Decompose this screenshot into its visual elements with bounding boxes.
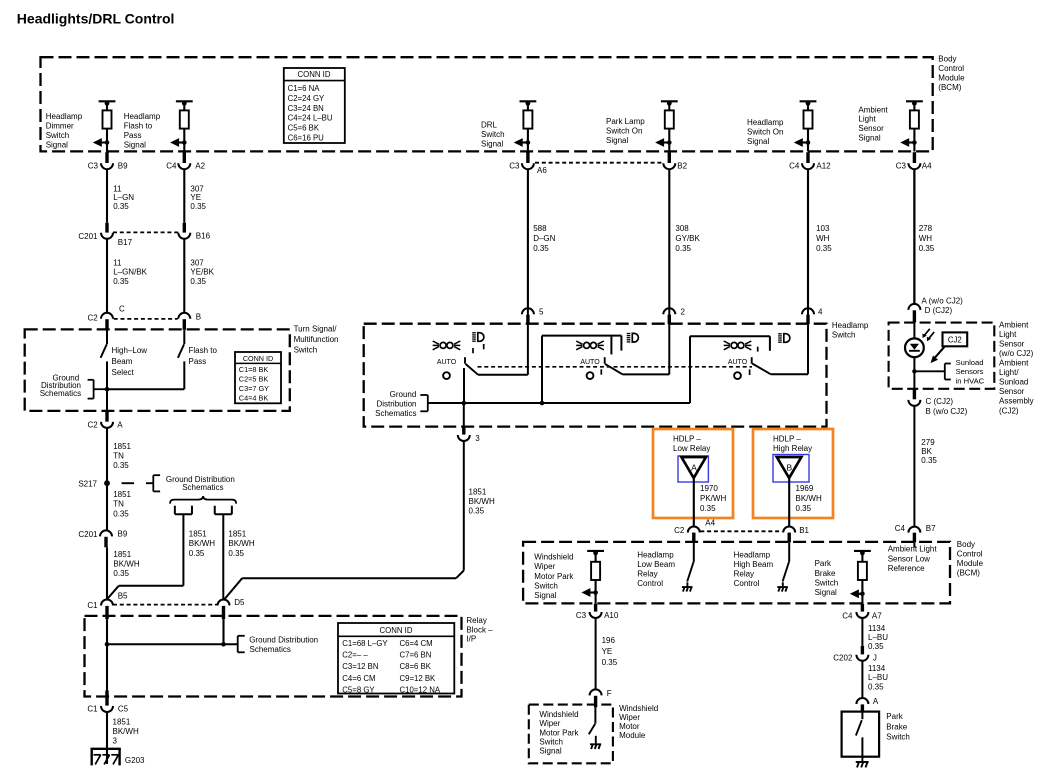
svg-text:3: 3 — [113, 736, 118, 745]
svg-text:Assembly: Assembly — [999, 397, 1034, 406]
svg-text:5: 5 — [539, 307, 544, 316]
svg-text:1970: 1970 — [700, 484, 718, 493]
svg-text:1851: 1851 — [189, 530, 207, 539]
svg-text:Wiper: Wiper — [619, 713, 640, 722]
svg-text:Sunload: Sunload — [999, 378, 1028, 387]
svg-text:Light: Light — [858, 115, 876, 124]
svg-text:C2=24 GY: C2=24 GY — [288, 94, 325, 103]
svg-text:AUTO: AUTO — [437, 359, 457, 366]
svg-text:C3: C3 — [576, 611, 587, 620]
svg-text:BK/WH: BK/WH — [469, 497, 495, 506]
svg-text:Module: Module — [619, 731, 646, 740]
svg-text:Headlamp: Headlamp — [124, 112, 161, 121]
svg-text:HDLP –: HDLP – — [673, 434, 701, 443]
svg-text:C4: C4 — [166, 161, 177, 170]
svg-text:Switch On: Switch On — [606, 127, 642, 136]
svg-text:L–GN: L–GN — [113, 193, 134, 202]
svg-text:Headlights/DRL Control: Headlights/DRL Control — [17, 10, 175, 26]
svg-text:Switch: Switch — [294, 346, 318, 355]
svg-text:C7=6 BN: C7=6 BN — [400, 651, 432, 660]
svg-text:C2=– –: C2=– – — [342, 651, 368, 660]
svg-text:S217: S217 — [78, 479, 97, 488]
svg-text:Switch: Switch — [46, 131, 70, 140]
svg-text:C202: C202 — [833, 654, 853, 663]
svg-text:Block –: Block – — [466, 625, 493, 634]
svg-text:Park Lamp: Park Lamp — [606, 117, 645, 126]
svg-text:AUTO: AUTO — [728, 359, 748, 366]
svg-text:0.35: 0.35 — [469, 507, 485, 516]
svg-text:0.35: 0.35 — [796, 504, 812, 513]
svg-text:0.35: 0.35 — [190, 277, 206, 286]
svg-text:AUTO: AUTO — [580, 359, 600, 366]
svg-text:0.35: 0.35 — [113, 569, 129, 578]
svg-text:C2=5 BK: C2=5 BK — [239, 374, 269, 383]
svg-text:(BCM): (BCM) — [938, 83, 961, 92]
svg-text:C2: C2 — [674, 526, 685, 535]
svg-text:Pass: Pass — [124, 131, 142, 140]
svg-text:C9=12 BK: C9=12 BK — [400, 674, 437, 683]
svg-text:A (w/o CJ2): A (w/o CJ2) — [922, 296, 964, 305]
svg-text:Park: Park — [886, 712, 903, 721]
svg-text:C4=4 BK: C4=4 BK — [239, 393, 269, 402]
svg-text:0.35: 0.35 — [602, 658, 618, 667]
svg-text:CONN ID: CONN ID — [380, 626, 413, 635]
svg-text:C10=12 NA: C10=12 NA — [400, 686, 441, 695]
svg-text:Headlamp: Headlamp — [832, 321, 869, 330]
svg-text:Relay: Relay — [466, 616, 486, 625]
svg-text:B5: B5 — [118, 592, 128, 601]
svg-text:High Relay: High Relay — [773, 444, 812, 453]
svg-text:Control: Control — [637, 579, 663, 588]
svg-text:Schematics: Schematics — [250, 645, 291, 654]
svg-text:Switch: Switch — [815, 578, 839, 587]
svg-text:J: J — [873, 654, 877, 663]
svg-text:Motor: Motor — [619, 722, 640, 731]
svg-text:Signal: Signal — [858, 134, 880, 143]
svg-text:Sunload: Sunload — [956, 358, 984, 367]
svg-text:Signal: Signal — [815, 588, 837, 597]
svg-text:BK: BK — [921, 447, 932, 456]
svg-text:Switch: Switch — [534, 581, 558, 590]
svg-text:in HVAC: in HVAC — [956, 376, 985, 385]
svg-text:Schematics: Schematics — [40, 389, 81, 398]
svg-text:4: 4 — [818, 307, 823, 316]
svg-text:C4=6 CM: C4=6 CM — [342, 674, 375, 683]
svg-text:PK/WH: PK/WH — [700, 494, 726, 503]
svg-text:307: 307 — [190, 185, 204, 194]
svg-text:GY/BK: GY/BK — [675, 234, 700, 243]
svg-text:I/P: I/P — [466, 635, 476, 644]
svg-text:Ambient: Ambient — [999, 359, 1029, 368]
svg-text:Park: Park — [815, 559, 832, 568]
svg-text:Brake: Brake — [886, 722, 907, 731]
svg-text:C5=8 GY: C5=8 GY — [342, 686, 375, 695]
svg-text:278: 278 — [919, 224, 933, 233]
svg-text:C3=12 BN: C3=12 BN — [342, 662, 378, 671]
svg-text:3: 3 — [475, 434, 480, 443]
svg-text:(BCM): (BCM) — [957, 569, 980, 578]
svg-text:Control: Control — [957, 549, 983, 558]
svg-text:Body: Body — [957, 540, 975, 549]
svg-text:B17: B17 — [118, 238, 133, 247]
svg-text:BK/WH: BK/WH — [228, 539, 254, 548]
svg-text:Headlamp: Headlamp — [46, 112, 83, 121]
svg-text:Relay: Relay — [637, 570, 657, 579]
svg-text:(CJ2): (CJ2) — [999, 406, 1019, 415]
svg-text:WH: WH — [816, 234, 830, 243]
svg-text:Flash to: Flash to — [124, 122, 153, 131]
svg-text:Ground: Ground — [390, 390, 417, 399]
svg-text:Wiper: Wiper — [534, 562, 555, 571]
svg-text:C2: C2 — [87, 313, 98, 322]
svg-text:L–GN/BK: L–GN/BK — [113, 268, 147, 277]
svg-text:0.35: 0.35 — [675, 244, 691, 253]
svg-text:Signal: Signal — [747, 137, 769, 146]
svg-text:BK/WH: BK/WH — [113, 560, 139, 569]
svg-text:D5: D5 — [234, 598, 245, 607]
svg-text:L–BU: L–BU — [868, 673, 888, 682]
svg-text:C: C — [119, 305, 125, 314]
svg-text:C201: C201 — [78, 232, 98, 241]
svg-text:Signal: Signal — [606, 136, 628, 145]
svg-text:Signal: Signal — [124, 141, 146, 150]
svg-text:588: 588 — [533, 224, 547, 233]
svg-text:A: A — [117, 420, 123, 429]
svg-text:2: 2 — [681, 307, 686, 316]
svg-text:A4: A4 — [705, 518, 715, 527]
svg-text:A: A — [873, 697, 879, 706]
svg-text:Windshield: Windshield — [619, 704, 658, 713]
svg-text:0.35: 0.35 — [921, 456, 937, 465]
svg-text:Low Relay: Low Relay — [673, 444, 710, 453]
svg-text:Multifunction: Multifunction — [294, 335, 339, 344]
svg-text:1134: 1134 — [868, 664, 886, 673]
svg-text:Switch: Switch — [832, 331, 856, 340]
svg-text:Module: Module — [938, 73, 965, 82]
svg-text:TN: TN — [113, 500, 124, 509]
svg-text:Switch: Switch — [481, 130, 505, 139]
svg-text:Schematics: Schematics — [375, 409, 416, 418]
svg-text:0.35: 0.35 — [533, 244, 549, 253]
svg-text:C6=4 CM: C6=4 CM — [400, 639, 433, 648]
svg-text:Relay: Relay — [734, 570, 754, 579]
svg-text:Sensor Low: Sensor Low — [888, 554, 930, 563]
svg-text:HDLP –: HDLP – — [773, 434, 801, 443]
svg-text:0.35: 0.35 — [113, 202, 129, 211]
svg-text:11: 11 — [113, 258, 122, 267]
svg-text:0.35: 0.35 — [868, 682, 884, 691]
svg-text:Signal: Signal — [481, 140, 503, 149]
svg-text:Motor Park: Motor Park — [534, 572, 574, 581]
svg-text:Reference: Reference — [888, 564, 925, 573]
svg-text:WH: WH — [919, 234, 933, 243]
svg-text:0.35: 0.35 — [228, 549, 244, 558]
svg-text:0.35: 0.35 — [113, 509, 129, 518]
svg-text:A: A — [691, 462, 697, 472]
svg-text:B16: B16 — [196, 231, 211, 240]
svg-text:C3: C3 — [88, 161, 99, 170]
svg-text:C3=24 BN: C3=24 BN — [288, 104, 324, 113]
svg-text:BK/WH: BK/WH — [113, 727, 139, 736]
svg-text:Select: Select — [112, 368, 135, 377]
svg-text:C1=8 BK: C1=8 BK — [239, 365, 269, 374]
svg-text:0.35: 0.35 — [816, 244, 832, 253]
svg-text:C5=6 BK: C5=6 BK — [288, 124, 320, 133]
svg-text:C8=6 BK: C8=6 BK — [400, 662, 432, 671]
svg-text:1851: 1851 — [113, 490, 131, 499]
svg-text:0.35: 0.35 — [189, 549, 205, 558]
svg-text:BK/WH: BK/WH — [189, 539, 215, 548]
svg-text:L–BU: L–BU — [868, 633, 888, 642]
svg-text:B (w/o CJ2): B (w/o CJ2) — [926, 407, 968, 416]
svg-text:Switch On: Switch On — [747, 128, 783, 137]
svg-text:279: 279 — [921, 438, 935, 447]
svg-text:Beam: Beam — [112, 357, 133, 366]
svg-text:A4: A4 — [922, 161, 932, 170]
svg-text:A12: A12 — [816, 161, 831, 170]
svg-text:Distribution: Distribution — [376, 400, 416, 409]
svg-text:Switch: Switch — [539, 737, 563, 746]
svg-text:B7: B7 — [926, 524, 936, 533]
svg-text:TN: TN — [113, 452, 124, 461]
svg-text:C3=7 GY: C3=7 GY — [239, 384, 269, 393]
svg-text:Flash to: Flash to — [189, 346, 218, 355]
svg-text:1851: 1851 — [113, 442, 131, 451]
svg-text:Sensor: Sensor — [999, 339, 1025, 348]
svg-text:Control: Control — [938, 64, 964, 73]
svg-text:YE: YE — [190, 193, 201, 202]
svg-text:C1=6 NA: C1=6 NA — [288, 84, 321, 93]
svg-text:A6: A6 — [537, 166, 547, 175]
svg-text:DRL: DRL — [481, 121, 498, 130]
svg-text:C1: C1 — [87, 704, 98, 713]
svg-text:C3: C3 — [896, 161, 907, 170]
svg-text:C4: C4 — [842, 612, 853, 621]
svg-text:Pass: Pass — [189, 357, 207, 366]
svg-text:B: B — [196, 313, 201, 322]
svg-text:Motor Park: Motor Park — [539, 728, 579, 737]
svg-text:Ambient Light: Ambient Light — [888, 545, 938, 554]
svg-text:Headlamp: Headlamp — [747, 118, 784, 127]
svg-text:Headlamp: Headlamp — [734, 550, 771, 559]
svg-text:Control: Control — [734, 579, 760, 588]
svg-text:High Beam: High Beam — [734, 560, 774, 569]
svg-text:Body: Body — [938, 54, 956, 63]
svg-text:1969: 1969 — [796, 484, 814, 493]
svg-text:1851: 1851 — [113, 718, 131, 727]
svg-text:11: 11 — [113, 185, 122, 194]
svg-text:A10: A10 — [604, 611, 619, 620]
svg-text:C1: C1 — [87, 601, 98, 610]
svg-text:C3: C3 — [509, 161, 520, 170]
svg-text:Windshield: Windshield — [539, 710, 578, 719]
svg-text:YE: YE — [602, 647, 613, 656]
svg-text:Signal: Signal — [534, 591, 556, 600]
svg-text:C5: C5 — [118, 704, 129, 713]
svg-text:(w/o CJ2): (w/o CJ2) — [999, 349, 1034, 358]
svg-text:0.35: 0.35 — [190, 202, 206, 211]
svg-text:C4: C4 — [895, 524, 906, 533]
svg-text:B1: B1 — [799, 526, 809, 535]
svg-text:High–Low: High–Low — [112, 346, 148, 355]
svg-text:Ground Distribution: Ground Distribution — [249, 635, 318, 644]
svg-text:B9: B9 — [118, 161, 128, 170]
svg-text:Signal: Signal — [539, 747, 561, 756]
svg-text:Schematics: Schematics — [182, 483, 223, 492]
svg-text:B: B — [786, 462, 792, 472]
svg-text:1134: 1134 — [868, 624, 886, 633]
svg-text:BK/WH: BK/WH — [796, 494, 822, 503]
svg-text:Sensor: Sensor — [999, 387, 1025, 396]
svg-text:Headlamp: Headlamp — [637, 550, 674, 559]
svg-text:0.35: 0.35 — [113, 277, 129, 286]
svg-text:Ambient: Ambient — [858, 105, 888, 114]
svg-text:Low Beam: Low Beam — [637, 560, 675, 569]
svg-text:Windshield: Windshield — [534, 553, 573, 562]
svg-text:Switch: Switch — [886, 733, 910, 742]
svg-text:Sensor: Sensor — [858, 124, 884, 133]
svg-text:C2: C2 — [87, 420, 98, 429]
svg-text:CJ2: CJ2 — [948, 336, 962, 345]
svg-text:C6=16 PU: C6=16 PU — [288, 134, 325, 143]
svg-text:Dimmer: Dimmer — [46, 122, 74, 131]
svg-text:0.35: 0.35 — [868, 642, 884, 651]
svg-text:A7: A7 — [872, 612, 882, 621]
svg-text:C201: C201 — [78, 530, 98, 539]
svg-text:0.35: 0.35 — [113, 461, 129, 470]
svg-text:C4=24 L–BU: C4=24 L–BU — [288, 114, 333, 123]
svg-text:0.35: 0.35 — [919, 244, 935, 253]
svg-text:307: 307 — [190, 258, 204, 267]
svg-text:B9: B9 — [118, 529, 128, 538]
svg-text:D–GN: D–GN — [533, 234, 555, 243]
svg-text:1851: 1851 — [113, 550, 131, 559]
svg-text:C4: C4 — [789, 161, 800, 170]
svg-text:A2: A2 — [195, 161, 205, 170]
svg-text:Turn Signal/: Turn Signal/ — [294, 324, 338, 333]
svg-text:0.35: 0.35 — [700, 504, 716, 513]
svg-text:G203: G203 — [125, 756, 145, 765]
svg-text:CONN ID: CONN ID — [298, 70, 331, 79]
svg-text:B2: B2 — [677, 161, 687, 170]
svg-text:D (CJ2): D (CJ2) — [925, 306, 953, 315]
svg-text:YE/BK: YE/BK — [190, 268, 214, 277]
svg-text:1851: 1851 — [469, 487, 487, 496]
svg-text:Light/: Light/ — [999, 368, 1019, 377]
svg-text:Brake: Brake — [815, 569, 836, 578]
svg-text:C (CJ2): C (CJ2) — [926, 397, 954, 406]
svg-text:1851: 1851 — [228, 530, 246, 539]
svg-text:Ambient: Ambient — [999, 320, 1029, 329]
svg-text:308: 308 — [675, 224, 689, 233]
svg-text:Signal: Signal — [46, 141, 68, 150]
svg-text:C1=68 L–GY: C1=68 L–GY — [342, 639, 388, 648]
svg-text:CONN ID: CONN ID — [243, 354, 273, 363]
svg-text:103: 103 — [816, 224, 830, 233]
svg-text:Light: Light — [999, 330, 1017, 339]
svg-text:Module: Module — [957, 559, 984, 568]
svg-text:Sensors: Sensors — [956, 367, 984, 376]
svg-text:F: F — [607, 689, 612, 698]
svg-text:Wiper: Wiper — [539, 719, 560, 728]
svg-text:196: 196 — [602, 636, 616, 645]
